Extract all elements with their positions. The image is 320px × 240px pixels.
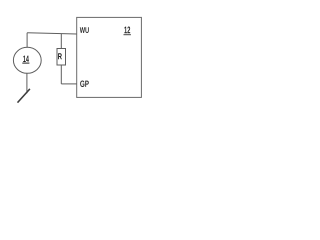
resistor R: [57, 49, 66, 66]
pin label WU: [80, 27, 89, 33]
wire: circle top to top rail: [26, 33, 28, 48]
wire: resistor bottom down: [60, 65, 62, 84]
label R: [58, 53, 62, 59]
box U12 (control unit): [77, 17, 142, 97]
wire: top rail to resistor top: [60, 34, 62, 49]
ref label 12: [124, 27, 131, 35]
wire: circle bottom down to switch: [26, 73, 28, 93]
switch S blade: [18, 89, 30, 103]
wire: bottom rail to GP pin: [61, 83, 76, 85]
ref label 14: [22, 56, 29, 64]
component 14 (sensor circle): [13, 47, 41, 73]
wire: top rail to WU pin: [27, 33, 77, 34]
pin label GP: [80, 81, 89, 87]
